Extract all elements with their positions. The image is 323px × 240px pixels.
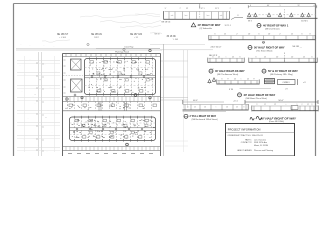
svg-text:t: t xyxy=(286,103,287,106)
svg-text:5': 5' xyxy=(214,33,216,35)
svg-text:40' HALF RIGHT OF WAY: 40' HALF RIGHT OF WAY xyxy=(244,93,276,97)
svg-text:swk: swk xyxy=(220,15,223,17)
svg-text:CURB 3: CURB 3 xyxy=(283,82,290,84)
svg-text:+: + xyxy=(34,94,36,96)
svg-text:301 NE 1: 301 NE 1 xyxy=(301,20,308,22)
svg-text:...: ... xyxy=(20,44,22,46)
svg-text:NE 18: NE 18 xyxy=(155,33,160,35)
svg-text:¢: ¢ xyxy=(284,53,285,55)
svg-text:40' HALF RIGHT OF WAY: 40' HALF RIGHT OF WAY xyxy=(260,116,297,120)
svg-text:(The Street West): (The Street West) xyxy=(256,49,273,52)
svg-text:NE 18 Ob: NE 18 Ob xyxy=(162,22,172,24)
svg-text:11': 11' xyxy=(186,8,189,10)
svg-text:CONTACT P:: CONTACT P: xyxy=(241,141,253,144)
svg-text:9': 9' xyxy=(227,79,229,81)
svg-text:..: .. xyxy=(40,80,41,82)
svg-text:OWNERSHIP TRACT NO: 186-022-0: OWNERSHIP TRACT NO: 186-022-011 xyxy=(228,134,264,137)
svg-text:12.71.1: 12.71.1 xyxy=(225,25,231,27)
svg-text:(NE The Avenue West): (NE The Avenue West) xyxy=(217,73,238,76)
svg-text:..: .. xyxy=(35,103,36,105)
svg-text:5': 5' xyxy=(243,107,245,109)
svg-text:lane: lane xyxy=(185,15,188,17)
svg-text:...: ... xyxy=(43,45,45,47)
svg-text:NE 187 184: NE 187 184 xyxy=(130,34,143,36)
svg-text:7: 7 xyxy=(229,8,230,10)
svg-text:3': 3' xyxy=(309,33,311,35)
svg-text:50' & 40' RIGHT OF WAY: 50' & 40' RIGHT OF WAY xyxy=(268,69,298,73)
svg-text:(From NE 185th): (From NE 185th) xyxy=(269,120,284,123)
svg-text:2': 2' xyxy=(279,33,281,35)
svg-text:t: t xyxy=(226,55,227,58)
svg-text:Plamingo Road: Plamingo Road xyxy=(115,51,129,53)
svg-text:NE 186 ST: NE 186 ST xyxy=(57,34,69,36)
svg-text:(2) Sidewalks: (2) Sidewalks xyxy=(200,28,212,30)
svg-text:12': 12' xyxy=(226,107,229,109)
svg-text:..: .. xyxy=(52,132,53,134)
svg-text:3' W: 3' W xyxy=(229,89,233,91)
svg-text:t: t xyxy=(216,106,217,109)
svg-text:5': 5' xyxy=(165,8,167,10)
svg-text:12' 1: 12' 1 xyxy=(200,8,204,10)
svg-text:11': 11' xyxy=(291,33,294,35)
svg-text:9': 9' xyxy=(253,79,255,81)
svg-text:PROJECT INFORMATION: PROJECT INFORMATION xyxy=(228,128,261,132)
svg-text:7: 7 xyxy=(179,8,180,10)
svg-text:5': 5' xyxy=(187,107,189,109)
svg-text:t: t xyxy=(241,78,242,81)
svg-text:40' RIGHT OF WAY: 40' RIGHT OF WAY xyxy=(198,23,221,27)
svg-text:(NE Boulevard 183rd Street): (NE Boulevard 183rd Street) xyxy=(192,118,219,121)
svg-text:12: 12 xyxy=(298,5,300,7)
svg-text:+ L 304: + L 304 xyxy=(59,37,67,39)
svg-text:..: .. xyxy=(45,64,46,66)
svg-text:2:1: 2:1 xyxy=(237,15,239,17)
svg-text:' L 309: ' L 309 xyxy=(173,39,179,41)
svg-text:11' 5': 11' 5' xyxy=(215,8,220,10)
svg-text:..: .. xyxy=(22,91,23,93)
svg-text:¢: ¢ xyxy=(199,4,200,6)
svg-text:4: 4 xyxy=(314,5,315,7)
svg-text:11': 11' xyxy=(194,107,197,109)
svg-text:5': 5' xyxy=(258,33,260,35)
svg-text:12': 12' xyxy=(204,107,207,109)
svg-text:NE 3: NE 3 xyxy=(248,20,252,22)
svg-text:+1 L5: +1 L5 xyxy=(233,101,238,103)
svg-text:Dixie Hwy: Dixie Hwy xyxy=(125,46,134,48)
svg-text:2': 2' xyxy=(236,33,238,35)
svg-text:40' RIGHT-OF-WAY 1: 40' RIGHT-OF-WAY 1 xyxy=(263,23,289,27)
svg-text:x: x xyxy=(46,117,47,119)
svg-text:36 18 Ob: 36 18 Ob xyxy=(167,36,177,38)
svg-text:..: .. xyxy=(24,139,25,141)
svg-text:(NE Miami Place West): (NE Miami Place West) xyxy=(246,97,268,100)
svg-text:x R: x R xyxy=(285,89,288,91)
svg-text:13': 13' xyxy=(248,33,251,35)
svg-text:1: 1 xyxy=(280,5,281,7)
svg-text:(NE 2nd Street): (NE 2nd Street) xyxy=(265,27,280,30)
svg-text:x R: x R xyxy=(303,82,306,84)
svg-text:11': 11' xyxy=(247,79,250,81)
svg-text:1: 1 xyxy=(297,104,298,106)
svg-text:swk: swk xyxy=(171,15,174,17)
svg-text:PART 1:: PART 1: xyxy=(245,138,252,141)
svg-text:NE 185 AV: NE 185 AV xyxy=(91,33,103,36)
svg-text:+ 91: + 91 xyxy=(134,37,139,39)
svg-text:40'-0": 40'-0" xyxy=(193,100,198,102)
svg-text:...: ... xyxy=(53,46,55,48)
svg-text:5': 5' xyxy=(301,33,303,35)
svg-text:11': 11' xyxy=(234,79,237,81)
svg-text:LAND PLANNER:: LAND PLANNER: xyxy=(237,149,252,152)
svg-text:50' HALF RIGHT OF WAY: 50' HALF RIGHT OF WAY xyxy=(254,45,285,49)
svg-text:4: 4 xyxy=(250,5,251,7)
svg-text:Lots Overview: Lots Overview xyxy=(254,138,267,141)
svg-text:Miami, FL 33180: Miami, FL 33180 xyxy=(254,145,268,147)
svg-text:24.0' 50'-0": 24.0' 50'-0" xyxy=(211,47,222,49)
svg-text:3308 187th Ave: 3308 187th Ave xyxy=(254,141,267,144)
svg-text:...: ... xyxy=(29,45,31,47)
svg-text:..: .. xyxy=(28,118,29,120)
svg-text:11': 11' xyxy=(224,33,227,35)
svg-text:1897: 1897 xyxy=(94,37,99,39)
svg-text:Planners and Planning: Planners and Planning xyxy=(254,149,273,152)
svg-text:11': 11' xyxy=(236,107,239,109)
svg-text:NE 185 __: NE 185 __ xyxy=(293,46,303,48)
svg-text:40' HALF RIGHT-OF-WAY: 40' HALF RIGHT-OF-WAY xyxy=(215,70,245,73)
svg-text:11: 11 xyxy=(212,69,214,71)
svg-text:13': 13' xyxy=(268,33,271,35)
svg-text:5': 5' xyxy=(221,79,223,81)
svg-text:2' FULL RIGHT OF WAY: 2' FULL RIGHT OF WAY xyxy=(190,115,217,118)
svg-text:(NE Parkway 183+ Way): (NE Parkway 183+ Way) xyxy=(270,73,293,76)
svg-text:lane: lane xyxy=(207,15,210,17)
svg-text:50'-0": 50'-0" xyxy=(278,100,284,102)
svg-text:..: .. xyxy=(20,65,21,67)
svg-text:..: .. xyxy=(47,151,48,153)
